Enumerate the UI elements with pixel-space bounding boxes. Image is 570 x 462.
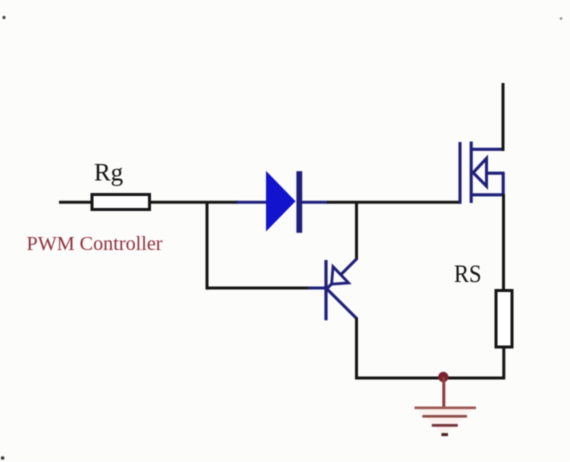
resistor RS — [496, 291, 512, 348]
wire: PNP base loop horizontal — [206, 287, 313, 290]
diode D1 — [266, 171, 302, 233]
wire: diode output node down to PNP emitter — [355, 202, 358, 259]
svg-text:Rg: Rg — [94, 160, 124, 187]
transistor Q1 (PNP) — [308, 259, 357, 321]
wire: Rg right terminal to MOSFET gate — [149, 201, 238, 204]
wire: source down to RS top — [502, 194, 505, 291]
wire: PWM controller input to Rg left terminal — [59, 201, 92, 204]
wire: bottom rail to RS bottom — [355, 377, 505, 380]
wire: diode cathode pin (navy) — [301, 201, 328, 204]
ground — [415, 372, 477, 435]
wire: RS bottom to bottom rail — [502, 346, 505, 379]
svg-text:PWM Controller: PWM Controller — [27, 233, 163, 255]
wire: PNP collector down — [355, 318, 358, 380]
MOSFET Q2 — [460, 142, 505, 204]
svg-text:RS: RS — [454, 261, 482, 288]
wire: junction down to PNP base loop — [206, 202, 209, 289]
label RS — [454, 261, 482, 288]
label Rg — [94, 160, 124, 187]
wire: diode anode pin (navy) — [236, 201, 267, 204]
wire: drain up to supply — [502, 83, 505, 151]
resistor Rg — [92, 195, 150, 210]
wire: diode cathode node to MOSFET gate — [327, 201, 460, 204]
label PWM Controller — [27, 233, 163, 255]
